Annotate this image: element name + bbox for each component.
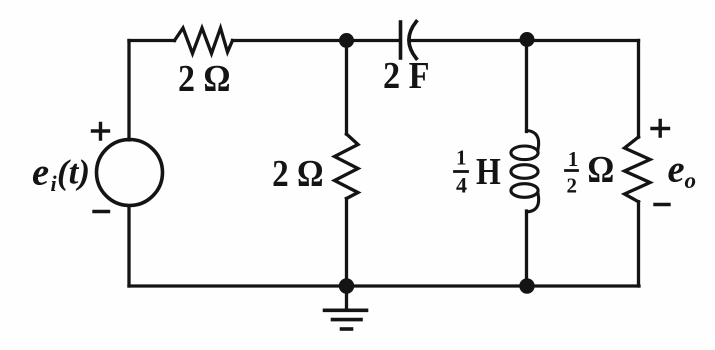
svg-text:o: o bbox=[685, 168, 697, 193]
svg-text:2 Ω: 2 Ω bbox=[272, 153, 323, 195]
svg-text:e: e bbox=[668, 149, 685, 191]
svg-text:(t): (t) bbox=[57, 153, 90, 191]
svg-text:2 Ω: 2 Ω bbox=[178, 58, 231, 100]
svg-text:1: 1 bbox=[568, 147, 579, 171]
svg-text:2: 2 bbox=[567, 174, 578, 198]
svg-text:H: H bbox=[476, 151, 501, 193]
svg-text:1: 1 bbox=[456, 145, 467, 169]
svg-text:2 F: 2 F bbox=[383, 55, 430, 97]
svg-text:e: e bbox=[32, 151, 49, 193]
svg-text:4: 4 bbox=[456, 173, 467, 198]
svg-text:Ω: Ω bbox=[587, 149, 614, 191]
